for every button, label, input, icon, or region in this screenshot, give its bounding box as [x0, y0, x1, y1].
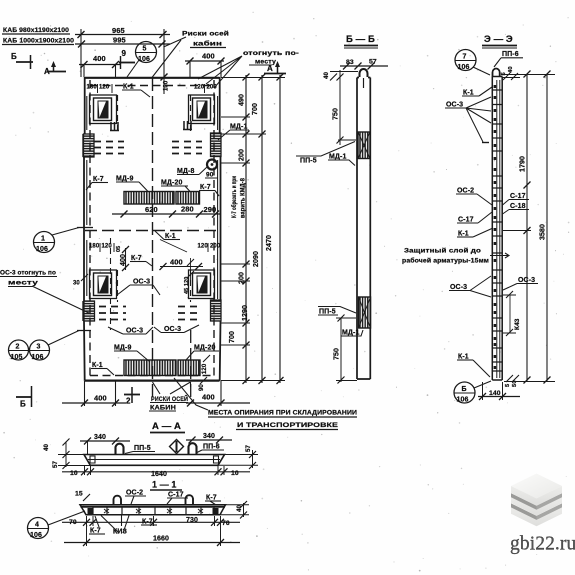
circle mark Б/106 (ee) — [454, 381, 491, 404]
svg-text:105: 105 — [11, 354, 23, 361]
svg-text:290: 290 — [204, 205, 217, 214]
svg-text:180: 180 — [87, 85, 98, 91]
svg-text:120: 120 — [194, 85, 205, 91]
note Защитный слой до рабочей арматуры-15мм — [402, 247, 509, 265]
label МД-1 bottom (bb) — [341, 330, 363, 337]
dashed rows lower-left group — [99, 307, 126, 320]
strip МД-20 (upper) — [176, 192, 200, 205]
svg-text:40: 40 — [323, 71, 330, 79]
logo dark band 2 — [511, 503, 562, 520]
svg-text:106: 106 — [458, 64, 470, 71]
circle mark 5/106 — [136, 42, 157, 64]
dim line 1790 (ee) — [503, 71, 531, 384]
ee lifting loop — [493, 68, 500, 76]
vertical dim 400 (row2 left) — [120, 246, 129, 271]
note И ТРАНСПОРТИРОВКЕ — [236, 422, 338, 430]
svg-text:КАБИН: КАБИН — [150, 405, 176, 412]
svg-text:400: 400 — [94, 394, 107, 403]
dashed opening axis x117.5 top row — [117, 95, 119, 131]
svg-text:30: 30 — [73, 281, 80, 287]
svg-text:2090: 2090 — [253, 251, 260, 267]
console МД-1 right-top — [211, 133, 222, 157]
11 loop left — [114, 496, 122, 504]
svg-text:05: 05 — [116, 246, 122, 252]
svg-text:700: 700 — [252, 103, 259, 115]
svg-text:МД-20: МД-20 — [194, 345, 215, 352]
right cabin axis dashed x190.7 — [190, 330, 192, 403]
svg-text:К-7: К-7 — [131, 255, 142, 262]
svg-text:57: 57 — [369, 59, 377, 66]
aa end marks — [90, 456, 219, 463]
console МД-1 left-top — [84, 134, 95, 157]
dimension 620/280/290 — [112, 205, 221, 218]
console right-bottom — [211, 300, 222, 321]
svg-text:750: 750 — [334, 348, 341, 360]
svg-text:1 — 1: 1 — 1 — [152, 480, 177, 490]
dashed opening axis x190.5 row2 — [190, 270, 192, 302]
label К-7 left (11) — [89, 516, 105, 535]
label С-17 left (ee) — [457, 212, 492, 224]
label К-1 top — [122, 84, 150, 98]
console left-bottom — [84, 301, 95, 321]
label К-1 bottom — [91, 362, 114, 375]
mid dashed line К-1 y230.5 — [85, 230, 219, 232]
inner dashed contour left x90 — [89, 80, 91, 378]
svg-text:ПП-5: ПП-5 — [134, 445, 151, 452]
svg-text:К-7: К-7 — [90, 528, 101, 535]
label ПП-6 (ee) — [494, 51, 523, 67]
svg-text:1640: 1640 — [151, 471, 167, 478]
svg-text:МД-9: МД-9 — [116, 176, 133, 183]
label ОС-2 (ee) — [456, 188, 492, 206]
view arrow А (right) — [264, 61, 286, 74]
svg-text:140: 140 — [489, 390, 501, 397]
svg-text:ОС-3: ОС-3 — [164, 326, 181, 333]
11 cross marks — [104, 509, 203, 513]
svg-text:ОС-2: ОС-2 — [126, 490, 143, 497]
svg-text:К-1: К-1 — [463, 90, 474, 97]
svg-text:кабин: кабин — [193, 40, 222, 48]
svg-text:gbi22.ru: gbi22.ru — [510, 534, 575, 555]
dim 40 left (aa) — [43, 439, 114, 468]
dimension 965 — [75, 26, 170, 38]
ee column rungs — [492, 90, 502, 371]
dim 750 bottom (bb) — [334, 315, 358, 384]
leader РИСКИ to bottom edge — [190, 382, 192, 387]
opening O3 frame — [90, 270, 117, 299]
leader from Риски to axis — [164, 37, 187, 47]
dashed rows lower-right group — [178, 307, 202, 320]
svg-text:995: 995 — [113, 36, 126, 45]
svg-text:70: 70 — [69, 519, 77, 526]
svg-text:К-7: К-7 — [93, 176, 104, 183]
svg-text:120: 120 — [198, 244, 209, 250]
circle mark 7/106 — [455, 50, 490, 76]
svg-text:МД-8: МД-8 — [177, 168, 194, 175]
strip МД-9 (upper) — [124, 192, 174, 205]
section mark 2 bottom — [124, 387, 140, 406]
svg-text:400: 400 — [93, 54, 106, 63]
dim 5/50 bottom (ee) — [505, 375, 519, 387]
bb lifting loop — [360, 69, 368, 77]
svg-text:А — А: А — А — [152, 421, 181, 432]
extension verticals (aa/11 shared) — [85, 466, 225, 546]
label ОС-2 (11) — [125, 490, 146, 505]
svg-text:Э — Э: Э — Э — [484, 34, 513, 45]
label К-1 mid (ee) — [457, 228, 493, 238]
bb hatched block top (МД-1) — [358, 132, 370, 159]
aa loop right — [189, 443, 197, 454]
svg-text:9: 9 — [122, 49, 127, 58]
svg-text:ОС-3 отогнуть по: ОС-3 отогнуть по — [0, 270, 56, 277]
small label 30 left edge — [73, 274, 88, 287]
svg-text:К-1: К-1 — [92, 362, 103, 369]
svg-text:83: 83 — [346, 59, 354, 66]
svg-text:А: А — [267, 64, 273, 73]
svg-text:1: 1 — [41, 236, 45, 243]
callout ОС-3 lower left — [108, 327, 153, 335]
svg-text:106: 106 — [138, 56, 150, 63]
svg-text:965: 965 — [112, 26, 125, 35]
anchor mark Ш right — [183, 121, 192, 130]
dim 340 left (aa) — [80, 434, 130, 454]
svg-text:К-1: К-1 — [458, 354, 469, 361]
label 05 rotated row2 — [116, 246, 122, 252]
chain1 labels — [229, 94, 249, 343]
svg-text:57: 57 — [52, 460, 59, 468]
header А—А — [150, 421, 185, 433]
note КАБ 980х1190х2100 — [2, 27, 70, 34]
svg-text:И ТРАНСПОРТИРОВКЕ: И ТРАНСПОРТИРОВКЕ — [237, 422, 338, 429]
dimension 400 row2 (horizontal) — [160, 258, 204, 271]
11 end blocks — [88, 508, 219, 514]
circle mark 2/105 — [9, 340, 29, 361]
svg-text:3: 3 — [37, 344, 41, 351]
label КИЗ (11) — [113, 516, 128, 536]
label С-17 (11) — [167, 492, 188, 505]
svg-text:700: 700 — [229, 331, 236, 343]
svg-text:40: 40 — [43, 443, 50, 451]
opening O1 dark insert — [98, 101, 109, 119]
svg-text:КАБ 980х1190х2100: КАБ 980х1190х2100 — [3, 27, 69, 34]
svg-text:рабочей арматуры-15мм: рабочей арматуры-15мм — [402, 257, 489, 265]
svg-text:106: 106 — [32, 354, 44, 361]
svg-text:730: 730 — [186, 517, 198, 524]
leaders отогнуть to right opening — [198, 56, 242, 88]
aa beam body — [84, 455, 225, 466]
svg-text:2: 2 — [16, 344, 20, 351]
dashed opening axis x190.5 top row — [190, 95, 192, 131]
left small tick (ee) — [482, 142, 489, 144]
strip МД-9 bottom — [124, 360, 176, 376]
svg-text:Защитный слой до: Защитный слой до — [404, 247, 481, 255]
bb column body — [357, 78, 370, 380]
svg-text:40: 40 — [508, 66, 514, 73]
svg-text:ОС-3: ОС-3 — [126, 328, 143, 335]
svg-text:106: 106 — [36, 246, 48, 253]
label МД-1 top (bb) — [328, 154, 355, 166]
dimension 400 bottom-left — [62, 381, 126, 407]
dashed rows upper-right group — [172, 142, 202, 154]
leader triangle (11) — [101, 516, 129, 534]
label К43 rotated (ee) — [503, 291, 521, 336]
dim 1660 (11) — [64, 536, 240, 547]
label МД-8 with leader — [177, 167, 207, 175]
svg-text:К-1: К-1 — [458, 231, 469, 238]
dim 750 top (bb) — [333, 70, 357, 145]
strip МД-20 bottom — [178, 360, 200, 376]
svg-text:ОС-3: ОС-3 — [133, 279, 150, 286]
opening O4 dark insert — [197, 276, 208, 294]
svg-text:400: 400 — [202, 52, 215, 61]
svg-text:ПП-6: ПП-6 — [203, 444, 220, 451]
logo slab 2 (middle) — [511, 484, 562, 516]
dim 140 bottom (ee) — [478, 382, 520, 400]
header Б—Б — [344, 34, 378, 48]
svg-text:С-17: С-17 — [510, 193, 526, 200]
label ОС-3 lower-right (ee) — [503, 277, 538, 290]
dim 40 right (11) — [220, 501, 249, 519]
11 beam body — [80, 505, 226, 515]
svg-text:РИСКИ ОСЕЙ: РИСКИ ОСЕЙ — [151, 394, 188, 403]
ee top extension line — [502, 74, 555, 76]
svg-text:340: 340 — [94, 434, 106, 441]
svg-text:К-1: К-1 — [123, 84, 134, 91]
svg-text:ПП-5: ПП-5 — [300, 158, 317, 165]
svg-text:340: 340 — [203, 433, 215, 440]
svg-text:15: 15 — [75, 491, 83, 498]
dim row 70/730/70 (11) — [62, 517, 240, 527]
note отогнуть по месту (top right) — [243, 50, 299, 66]
dim chain line 1 x246 — [243, 74, 250, 385]
dashed cabin axis x110 row2 — [110, 238, 112, 330]
svg-text:200: 200 — [207, 85, 218, 91]
svg-text:месту: месту — [8, 280, 38, 287]
inner dashed bottom y375.5 — [90, 375, 214, 377]
note РИСКИ ОСЕЙ КАБИН — [149, 382, 191, 412]
label К-1 top (ee) — [462, 87, 492, 97]
svg-text:90: 90 — [199, 384, 205, 391]
labels С-17 / С-18 right (ee) — [503, 193, 530, 214]
svg-text:10: 10 — [231, 470, 239, 477]
circle mark 4/106 (11) — [28, 511, 86, 539]
dashed rows upper-left group — [94, 142, 124, 154]
label К-7 right (11) — [205, 495, 221, 506]
svg-text:4: 4 — [35, 522, 39, 529]
header Э—Э — [482, 34, 517, 48]
label К-7 row2 — [130, 255, 152, 266]
svg-text:106: 106 — [457, 397, 469, 404]
dim chain line 2 x262 — [252, 74, 266, 385]
svg-text:МД-1: МД-1 — [342, 330, 359, 337]
leader МЕСТА to strip — [174, 378, 208, 410]
label ПП-5 top (bb) — [296, 142, 355, 165]
label К-7 mid (11) — [141, 508, 157, 526]
svg-text:месту: месту — [255, 59, 276, 66]
opening O3 dark insert — [98, 276, 109, 294]
label 90 (МД-8) — [205, 172, 218, 179]
aa loop left — [116, 444, 124, 454]
dim 10/1640/10 (aa) — [62, 468, 250, 478]
label 15 (11) — [75, 491, 90, 502]
label ПП-6 (aa) — [197, 444, 224, 453]
center axis dashed x152.5 — [152, 78, 154, 403]
svg-text:МЕСТА ОПИРАНИЯ ПРИ СКЛАДИРОВАН: МЕСТА ОПИРАНИЯ ПРИ СКЛАДИРОВАНИИ — [208, 410, 357, 417]
extension line left x81 — [80, 29, 82, 77]
callout ОС-3 lower right — [154, 325, 199, 333]
svg-text:К-7: К-7 — [200, 184, 211, 191]
label МД-9 — [116, 176, 148, 192]
svg-text:К-7: К-7 — [142, 519, 153, 526]
svg-text:Б — Б: Б — Б — [346, 34, 375, 45]
svg-text:2: 2 — [126, 397, 131, 406]
svg-text:7: 7 — [463, 54, 467, 61]
svg-text:1660: 1660 — [153, 536, 169, 543]
note К-7 обрезать и приварить КМД-8 (vertical) — [231, 176, 247, 218]
label МД-1 with leader — [218, 124, 249, 141]
svg-text:К-1: К-1 — [165, 233, 176, 240]
dim 340 right (aa) — [186, 433, 232, 444]
svg-text:106: 106 — [30, 532, 42, 539]
opening O4 frame — [189, 270, 215, 299]
ee rebar dots — [494, 85, 497, 369]
vertical label 90 bottom right — [199, 377, 207, 391]
ring МД-8 — [207, 160, 217, 170]
header 1—1 — [150, 480, 182, 491]
svg-text:3580: 3580 — [540, 224, 547, 240]
svg-text:ОС-3: ОС-3 — [450, 284, 467, 291]
label 120 200 top-right — [194, 84, 217, 93]
svg-text:К-7: К-7 — [206, 495, 217, 502]
svg-text:С-17: С-17 — [458, 217, 474, 224]
svg-text:200: 200 — [239, 149, 246, 161]
label ПП-5 (aa) — [125, 445, 155, 454]
svg-text:МД-1: МД-1 — [329, 154, 346, 161]
dim chain line 3 x280 — [266, 74, 284, 385]
inner dashed top y85.5 — [90, 85, 214, 87]
label К-7 left — [86, 176, 108, 190]
svg-text:К-7 обрезать и при: К-7 обрезать и при — [231, 176, 238, 218]
label 120 200 row2-right — [198, 243, 221, 252]
aa diamond mark — [170, 440, 184, 454]
note ОС-3 отогнуть по месту (left margin) — [0, 270, 57, 287]
svg-text:5: 5 — [143, 46, 147, 53]
small dim 45 120 near right opening — [184, 258, 194, 294]
opening O2 dark insert — [197, 101, 208, 119]
panel outline — [83, 77, 221, 381]
label 180 120 top-left — [87, 84, 113, 93]
svg-text:С-17: С-17 — [168, 492, 184, 499]
label К-1 mid — [155, 231, 187, 252]
label 180 120 row2-left — [89, 243, 114, 252]
svg-text:ОС-3: ОС-3 — [446, 102, 463, 109]
dimension 400 top-right — [185, 52, 225, 78]
svg-text:Риски осей: Риски осей — [182, 30, 229, 38]
11 stirrup marks — [93, 507, 214, 514]
svg-text:280: 280 — [181, 205, 194, 214]
svg-text:180: 180 — [89, 244, 100, 250]
label ОС-3 lower-left (ee) — [449, 276, 491, 297]
ee column body — [492, 77, 502, 381]
vertical label 120 bottom right — [202, 355, 210, 374]
callout ОС-3 row2 — [117, 279, 160, 296]
dimension 83 / 57 — [340, 59, 388, 70]
svg-text:КАБ 1000х1900х2100: КАБ 1000х1900х2100 — [3, 38, 75, 45]
dim 57 right (aa) — [218, 444, 258, 469]
svg-text:отогнуть по-: отогнуть по- — [243, 50, 299, 57]
dimension 400 bottom-right — [186, 381, 250, 407]
svg-text:400: 400 — [170, 258, 183, 267]
svg-text:57: 57 — [245, 444, 252, 452]
inner dashed contour right x214 — [213, 80, 215, 378]
svg-text:ПП-5: ПП-5 — [319, 309, 336, 316]
opening O1 frame — [90, 95, 117, 124]
svg-text:200: 200 — [210, 244, 221, 250]
anchor mark Ш left — [110, 122, 119, 131]
svg-text:ОС-2: ОС-2 — [457, 188, 474, 195]
label ОС-3 top (ee) with fan leaders — [445, 97, 491, 142]
logo slab 3 (bottom) — [511, 494, 562, 527]
bb hatched block bottom — [359, 297, 371, 328]
svg-text:К43: К43 — [514, 318, 521, 330]
svg-text:400: 400 — [202, 393, 215, 402]
note Риски осей кабин — [182, 30, 229, 48]
logo dark band 1 — [511, 493, 562, 510]
svg-text:90: 90 — [206, 172, 214, 179]
circle mark 3/106 — [30, 331, 92, 362]
cabin axis line x165 with mark 100 — [161, 29, 170, 94]
svg-text:490: 490 — [239, 94, 246, 106]
section mark Э (9) top — [119, 49, 135, 69]
svg-text:С-18: С-18 — [510, 203, 526, 210]
view arrow А (top left) — [44, 61, 66, 76]
dimension 400 top-left — [79, 54, 120, 77]
label К-1 bottom (ee) — [457, 354, 490, 378]
svg-text:120: 120 — [202, 363, 208, 374]
11 loop right — [186, 495, 194, 504]
svg-text:Б: Б — [462, 386, 467, 393]
svg-text:МД-9: МД-9 — [114, 345, 131, 352]
dim 40 top (bb) — [323, 71, 358, 80]
svg-text:200: 200 — [239, 272, 246, 284]
dashed opening axis x117.5 row2 — [117, 270, 119, 302]
svg-text:10: 10 — [70, 470, 78, 477]
svg-text:120: 120 — [99, 85, 110, 91]
svg-text:1290: 1290 — [242, 305, 249, 321]
svg-text:750: 750 — [333, 108, 340, 120]
dim 57 left (aa) — [52, 460, 90, 469]
circle mark 1/106 — [34, 228, 94, 254]
right dim chain extension lines — [221, 78, 285, 381]
svg-text:1790: 1790 — [520, 156, 527, 172]
leader ОС-3 месту to console — [33, 287, 91, 315]
section mark Б bottom-left — [16, 386, 32, 409]
opening O2 frame — [189, 95, 215, 124]
svg-text:2470: 2470 — [266, 235, 273, 251]
label К-7 right upper — [199, 184, 219, 196]
svg-text:Б: Б — [20, 400, 26, 409]
note КАБ 1000х1900х2100 — [2, 38, 75, 45]
label МД-20 — [161, 180, 190, 192]
ee bottom extension line — [504, 381, 555, 383]
label ПП-5 bottom (bb) — [318, 307, 356, 316]
svg-text:МД-20: МД-20 — [161, 180, 182, 187]
svg-text:620: 620 — [145, 205, 158, 214]
svg-text:70: 70 — [222, 520, 230, 527]
leader from circle 5 to panel — [127, 60, 139, 77]
dim line 3580 (ee) — [540, 71, 551, 384]
logo slab 1 (top) — [511, 474, 562, 506]
